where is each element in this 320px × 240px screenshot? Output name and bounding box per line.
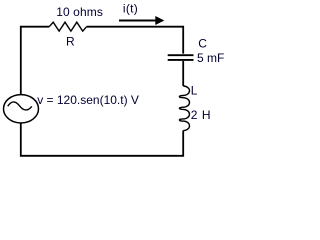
svg-text:5 mF: 5 mF [197,51,224,65]
svg-text:i(t): i(t) [123,1,138,15]
wire inductor to bottom-right corner, bottom, up to source [21,123,183,156]
inductor L coil [179,86,189,131]
current arrow [119,20,156,22]
svg-text:C: C [198,37,207,51]
svg-text:2 H: 2 H [191,108,211,122]
svg-text:L: L [191,84,198,98]
svg-text:10 ohms: 10 ohms [56,5,103,19]
wire top (resistor to top-right corner) down to capacitor [87,27,184,54]
AC source sine symbol [8,102,32,110]
wire left + top (to resistor) [21,27,49,95]
svg-text:R: R [66,34,75,48]
capacitor C plates [168,55,194,60]
AC source V1 circle [4,95,39,123]
svg-text:v = 120.sen(10.t) V: v = 120.sen(10.t) V [37,93,139,107]
wire capacitor to inductor [182,61,184,86]
resistor R [49,22,86,31]
